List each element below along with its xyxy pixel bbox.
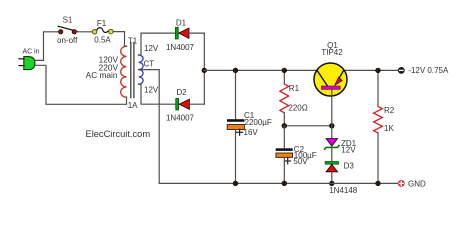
svg-text:-12V 0.75A: -12V 0.75A <box>408 66 449 75</box>
svg-text:ElecCircuit.com: ElecCircuit.com <box>86 129 151 139</box>
svg-text:D1: D1 <box>176 18 187 27</box>
svg-text:T1: T1 <box>128 37 138 46</box>
junction dot D3 bottom <box>329 181 334 186</box>
diode D1 1N4007 <box>166 18 195 52</box>
transformer T1 primary coil <box>121 46 127 97</box>
svg-text:0.5A: 0.5A <box>94 35 111 44</box>
svg-text:CT: CT <box>144 60 155 69</box>
svg-text:2200µF: 2200µF <box>245 118 272 127</box>
junction dot base column <box>329 123 334 128</box>
svg-text:D3: D3 <box>344 162 355 171</box>
capacitor C2 branch wire bottom <box>283 157 285 183</box>
wire S1 to F1 <box>76 31 92 33</box>
svg-text:12V: 12V <box>144 86 159 95</box>
wire R1 bottom to Q1 base column <box>284 125 332 127</box>
wire D3 to ground rail <box>331 172 333 184</box>
svg-text:50V: 50V <box>293 157 308 166</box>
terminal GND <box>398 179 426 188</box>
junction dot C2 bottom <box>282 181 287 186</box>
svg-text:S1: S1 <box>63 16 73 25</box>
wire primary top jog <box>125 45 127 47</box>
wire secondary top tap to D1 <box>139 33 176 55</box>
svg-text:R2: R2 <box>384 106 395 115</box>
wire D2 to node A <box>189 103 204 105</box>
resistor R2 1K <box>374 70 395 183</box>
junction dot R2 top <box>376 68 381 73</box>
ground rail <box>159 182 398 184</box>
svg-text:D2: D2 <box>176 88 187 97</box>
junction dot C1 top <box>233 68 238 73</box>
capacitor C1 2200uF <box>227 111 272 137</box>
terminal -12V output <box>398 66 449 75</box>
svg-text:on-off: on-off <box>57 36 78 45</box>
wire plug-top to switch row <box>35 32 59 61</box>
svg-text:1A: 1A <box>128 101 138 110</box>
svg-text:F1: F1 <box>97 19 107 28</box>
wire F1 to transformer primary top <box>113 32 124 47</box>
junction dot C1 bottom <box>233 181 238 186</box>
capacitor C2 branch wire top <box>283 126 285 148</box>
wire Q1 base down <box>331 89 333 138</box>
junction dot R1 bottom <box>282 123 287 128</box>
svg-text:R1: R1 <box>289 84 300 93</box>
svg-text:GND: GND <box>408 179 426 188</box>
resistor R1 220ohm <box>280 70 308 125</box>
transformer T1 secondary coil <box>139 55 144 84</box>
diode D2 1N4007 <box>166 88 195 123</box>
svg-text:AC in: AC in <box>22 49 39 56</box>
wire primary bottom loop back to plug <box>35 65 127 104</box>
junction dot R1 top <box>282 68 287 73</box>
capacitor C1 branch wire bottom <box>235 130 237 184</box>
svg-text:12V: 12V <box>341 146 356 155</box>
svg-text:12V: 12V <box>144 44 159 53</box>
wire ZD1 to D3 <box>331 148 333 162</box>
wire rail right of Q1 to output <box>344 69 398 71</box>
svg-text:16V: 16V <box>244 128 259 137</box>
wire main negative rail <box>204 69 316 71</box>
diode D3 1N4148 <box>325 162 354 172</box>
AC plug P1 <box>19 49 40 70</box>
junction dot R2 bottom <box>376 181 381 186</box>
wire secondary bottom tap to D2 <box>139 84 176 104</box>
wire vertical D1/D2 join at node A <box>203 33 205 104</box>
svg-text:220Ω: 220Ω <box>288 103 307 112</box>
transformer core <box>131 43 134 98</box>
capacitor C2 100uF <box>276 145 317 166</box>
wire CT tap down to ground rail <box>139 70 160 184</box>
node A junction dot <box>202 68 207 73</box>
capacitor C1 branch wire top <box>235 70 237 119</box>
label 120V 220V AC main <box>86 55 119 80</box>
svg-text:TIP42: TIP42 <box>321 48 343 57</box>
transistor Q1 TIP42 <box>314 41 347 96</box>
svg-text:1N4007: 1N4007 <box>166 43 195 52</box>
wire D1 to node A <box>189 32 204 34</box>
switch S1 <box>57 16 78 46</box>
svg-text:AC main: AC main <box>86 70 118 80</box>
svg-text:1N4148: 1N4148 <box>329 186 358 195</box>
zener ZD1 12V <box>325 139 357 155</box>
svg-text:1K: 1K <box>384 124 394 133</box>
svg-text:1N4007: 1N4007 <box>166 114 195 123</box>
fuse F1 <box>92 19 113 44</box>
